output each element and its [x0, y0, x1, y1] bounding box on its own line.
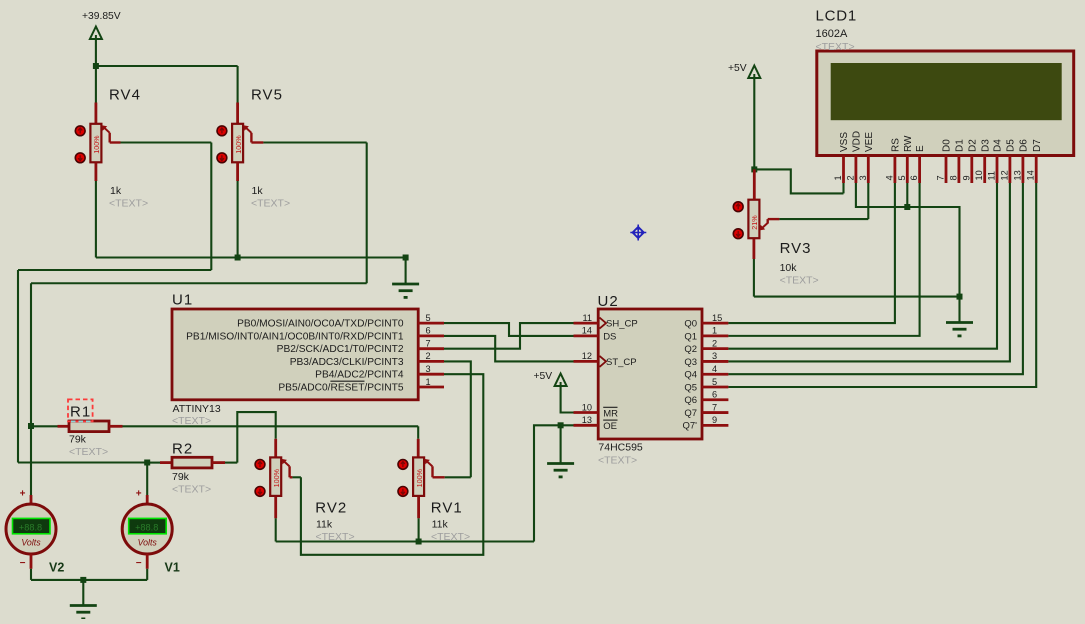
svg-text:74HC595: 74HC595 — [598, 442, 643, 454]
svg-text:2: 2 — [426, 351, 431, 361]
svg-text:PB0/MOSI/AIN0/OC0A/TXD/PCINT0: PB0/MOSI/AIN0/OC0A/TXD/PCINT0 — [237, 319, 404, 330]
label RV2 — [315, 500, 354, 544]
label RV1 — [431, 500, 470, 544]
wire — [146, 554, 149, 580]
wire — [728, 183, 1023, 374]
wire — [95, 66, 97, 124]
svg-text:9: 9 — [712, 415, 717, 425]
svg-text:1: 1 — [712, 326, 717, 336]
junction — [235, 255, 241, 261]
svg-text:LCD1: LCD1 — [816, 8, 858, 25]
wire — [237, 412, 275, 463]
svg-text:R1: R1 — [70, 404, 91, 421]
junction — [403, 255, 409, 261]
wire — [96, 256, 406, 258]
wire — [96, 65, 238, 67]
svg-text:6: 6 — [909, 175, 919, 180]
svg-text:+88.8: +88.8 — [135, 523, 158, 533]
svg-text:DS: DS — [603, 331, 616, 342]
svg-text:21%: 21% — [750, 215, 759, 230]
junction — [904, 204, 910, 210]
svg-text:Q7': Q7' — [683, 421, 698, 432]
svg-text:D0: D0 — [942, 139, 953, 152]
ground — [70, 580, 97, 619]
svg-text:1k: 1k — [252, 185, 264, 197]
svg-text:<TEXT>: <TEXT> — [172, 484, 211, 496]
label R1 with selection box — [68, 399, 108, 458]
svg-text:11k: 11k — [432, 519, 449, 531]
svg-text:100%: 100% — [92, 135, 101, 154]
wire — [444, 323, 574, 349]
svg-text:−: − — [136, 558, 142, 569]
svg-text:79k: 79k — [172, 471, 190, 483]
svg-text:<TEXT>: <TEXT> — [69, 446, 108, 458]
svg-text:RV3: RV3 — [780, 240, 812, 257]
svg-text:RV1: RV1 — [431, 500, 463, 517]
svg-text:Volts: Volts — [21, 538, 41, 548]
wire — [290, 466, 301, 477]
svg-text:4: 4 — [712, 364, 717, 374]
wire — [31, 133, 367, 426]
wire — [31, 579, 147, 581]
resistor R2 — [147, 457, 237, 468]
svg-text:3: 3 — [858, 175, 868, 180]
svg-text:5: 5 — [426, 313, 431, 323]
svg-text:ATTINY13: ATTINY13 — [173, 403, 221, 415]
wire — [728, 183, 997, 349]
junction — [93, 63, 99, 69]
svg-text:+5V: +5V — [534, 371, 553, 382]
svg-text:SH_CP: SH_CP — [606, 319, 638, 330]
svg-text:+39.85V: +39.85V — [82, 11, 121, 22]
label RV3 — [780, 240, 819, 287]
ground — [946, 297, 973, 336]
potentiometer RV1 — [398, 457, 432, 496]
wire — [768, 183, 869, 224]
label R2 — [172, 441, 211, 496]
potentiometer RV4 — [75, 124, 109, 163]
svg-text:3: 3 — [712, 351, 717, 361]
svg-text:14: 14 — [582, 326, 592, 336]
label RV4 — [109, 87, 148, 210]
wire — [95, 39, 97, 66]
svg-text:D5: D5 — [1006, 139, 1017, 152]
svg-text:MR: MR — [603, 408, 618, 419]
junction — [751, 166, 757, 172]
svg-text:Q3: Q3 — [684, 357, 697, 368]
svg-text:Q4: Q4 — [684, 370, 697, 381]
svg-text:2: 2 — [845, 175, 855, 180]
ground — [392, 258, 419, 298]
wire — [753, 169, 756, 199]
wire — [18, 133, 211, 463]
svg-text:+88.8: +88.8 — [19, 523, 42, 533]
svg-text:R2: R2 — [172, 441, 193, 458]
svg-text:12: 12 — [999, 170, 1009, 180]
svg-text:RV4: RV4 — [109, 87, 141, 104]
wire — [728, 183, 895, 323]
svg-text:100%: 100% — [415, 468, 424, 487]
svg-text:VEE: VEE — [864, 132, 875, 152]
svg-text:3: 3 — [426, 364, 431, 374]
svg-text:RV5: RV5 — [251, 87, 283, 104]
svg-text:Volts: Volts — [138, 538, 158, 548]
svg-text:13: 13 — [582, 415, 592, 425]
svg-text:11: 11 — [582, 313, 592, 323]
origin marker — [630, 225, 646, 241]
svg-text:7: 7 — [426, 339, 431, 349]
wire — [728, 183, 1036, 387]
junction — [144, 460, 150, 466]
svg-text:D4: D4 — [993, 139, 1004, 152]
resistor R1 — [31, 421, 418, 432]
IC U1 ATTINY13 — [172, 309, 418, 400]
svg-text:10k: 10k — [780, 262, 798, 274]
svg-text:<TEXT>: <TEXT> — [109, 198, 148, 210]
svg-text:Q1: Q1 — [684, 331, 697, 342]
svg-text:RS: RS — [891, 138, 902, 152]
ground — [547, 425, 574, 477]
wire — [561, 386, 574, 413]
voltmeter V1 — [122, 504, 172, 554]
svg-text:PB5/ADC0/RESET/PCINT5: PB5/ADC0/RESET/PCINT5 — [278, 382, 403, 393]
junction — [558, 422, 564, 428]
wire — [754, 239, 960, 297]
wire — [444, 323, 574, 336]
svg-text:11: 11 — [987, 171, 997, 181]
wire — [906, 183, 908, 207]
svg-text:100%: 100% — [272, 468, 281, 487]
svg-text:10: 10 — [974, 170, 984, 180]
svg-text:VDD: VDD — [852, 131, 863, 152]
svg-text:PB2/SCK/ADC1/T0/PCINT2: PB2/SCK/ADC1/T0/PCINT2 — [277, 344, 404, 355]
svg-text:14: 14 — [1026, 170, 1036, 180]
svg-text:Q6: Q6 — [684, 395, 697, 406]
svg-text:U2: U2 — [598, 293, 619, 310]
svg-text:OE: OE — [603, 421, 617, 432]
svg-text:E: E — [915, 145, 926, 152]
wire — [237, 66, 239, 124]
U2 right pin stubs and numbers — [702, 313, 728, 425]
U1 pin stubs and numbers — [418, 313, 444, 387]
svg-text:<TEXT>: <TEXT> — [816, 41, 855, 53]
label U1 — [172, 292, 221, 428]
svg-text:<TEXT>: <TEXT> — [251, 198, 290, 210]
wire — [236, 162, 239, 257]
wire — [433, 466, 471, 477]
potentiometer RV5 — [217, 124, 251, 163]
svg-text:1: 1 — [426, 377, 431, 387]
svg-text:1602A: 1602A — [816, 28, 848, 40]
wire — [444, 336, 574, 362]
wire — [274, 497, 277, 542]
svg-text:6: 6 — [426, 326, 431, 336]
wire — [856, 183, 960, 297]
voltmeter V2 — [6, 504, 56, 554]
svg-text:79k: 79k — [69, 434, 87, 446]
wire — [753, 78, 755, 170]
svg-text:RW: RW — [903, 135, 914, 152]
svg-text:4: 4 — [884, 175, 894, 180]
svg-text:6: 6 — [712, 390, 717, 400]
svg-text:<TEXT>: <TEXT> — [598, 455, 637, 467]
svg-text:+: + — [20, 489, 26, 500]
LCD pin stubs and numbers — [833, 156, 1036, 184]
svg-text:13: 13 — [1012, 170, 1022, 180]
power terminal +5V — [728, 63, 760, 79]
power terminal +5V — [534, 371, 567, 387]
label U2 — [598, 293, 643, 467]
LCD display LCD1 — [817, 51, 1074, 156]
svg-text:100%: 100% — [234, 135, 243, 154]
potentiometer RV2 — [255, 457, 289, 496]
svg-text:9: 9 — [961, 175, 971, 180]
wire — [728, 183, 919, 336]
svg-text:PB4/ADC2/PCINT4: PB4/ADC2/PCINT4 — [315, 370, 404, 381]
junction — [28, 423, 34, 429]
svg-text:1k: 1k — [110, 185, 122, 197]
svg-text:D2: D2 — [967, 139, 978, 152]
wire — [301, 374, 483, 555]
svg-text:RV2: RV2 — [315, 500, 347, 517]
svg-text:D1: D1 — [955, 139, 966, 152]
wire — [417, 497, 420, 542]
power terminal +39.85V — [82, 11, 121, 40]
junction — [957, 294, 963, 300]
svg-text:D7: D7 — [1032, 139, 1043, 152]
svg-text:8: 8 — [948, 175, 958, 180]
svg-text:V2: V2 — [49, 561, 64, 575]
svg-text:VSS: VSS — [839, 132, 850, 152]
svg-text:ST_CP: ST_CP — [606, 357, 637, 368]
wire — [276, 540, 534, 542]
potentiometer RV3 — [733, 200, 767, 239]
wire — [30, 554, 33, 580]
svg-text:10: 10 — [582, 402, 592, 412]
svg-text:<TEXT>: <TEXT> — [172, 415, 211, 427]
svg-text:Q2: Q2 — [684, 344, 697, 355]
svg-text:+: + — [136, 489, 142, 500]
svg-text:D6: D6 — [1019, 139, 1030, 152]
svg-text:12: 12 — [582, 351, 592, 361]
svg-text:−: − — [20, 558, 26, 569]
wire — [417, 426, 419, 457]
svg-text:Q5: Q5 — [684, 382, 697, 393]
svg-text:1: 1 — [833, 175, 843, 180]
svg-text:<TEXT>: <TEXT> — [780, 275, 819, 287]
svg-text:PB3/ADC3/CLKI/PCINT3: PB3/ADC3/CLKI/PCINT3 — [290, 357, 404, 368]
svg-text:15: 15 — [712, 313, 722, 323]
svg-text:7: 7 — [936, 175, 946, 180]
svg-text:Q0: Q0 — [684, 319, 697, 330]
svg-text:D3: D3 — [980, 139, 991, 152]
svg-text:V1: V1 — [165, 561, 180, 575]
label RV5 — [251, 87, 290, 210]
wire — [95, 162, 98, 257]
junction — [416, 539, 422, 545]
svg-text:+5V: +5V — [728, 63, 747, 74]
svg-text:U1: U1 — [172, 292, 193, 309]
svg-text:5: 5 — [897, 175, 907, 180]
wire — [444, 361, 471, 477]
svg-text:Q7: Q7 — [684, 408, 697, 419]
svg-text:5: 5 — [712, 377, 717, 387]
wire — [534, 425, 574, 541]
wire — [146, 463, 148, 505]
wire — [754, 169, 843, 193]
IC U2 74HC595 — [598, 309, 702, 439]
U2 left pin stubs and numbers — [574, 313, 599, 425]
wire — [728, 183, 1010, 361]
svg-text:PB1/MISO/INT0/AIN1/OC0B/INT0/R: PB1/MISO/INT0/AIN1/OC0B/INT0/RXD/PCINT1 — [186, 331, 404, 342]
junction — [80, 577, 86, 583]
svg-text:2: 2 — [712, 338, 717, 348]
svg-text:7: 7 — [712, 402, 717, 412]
wire — [30, 426, 32, 505]
label LCD1 — [816, 8, 858, 54]
svg-text:11k: 11k — [316, 519, 333, 531]
